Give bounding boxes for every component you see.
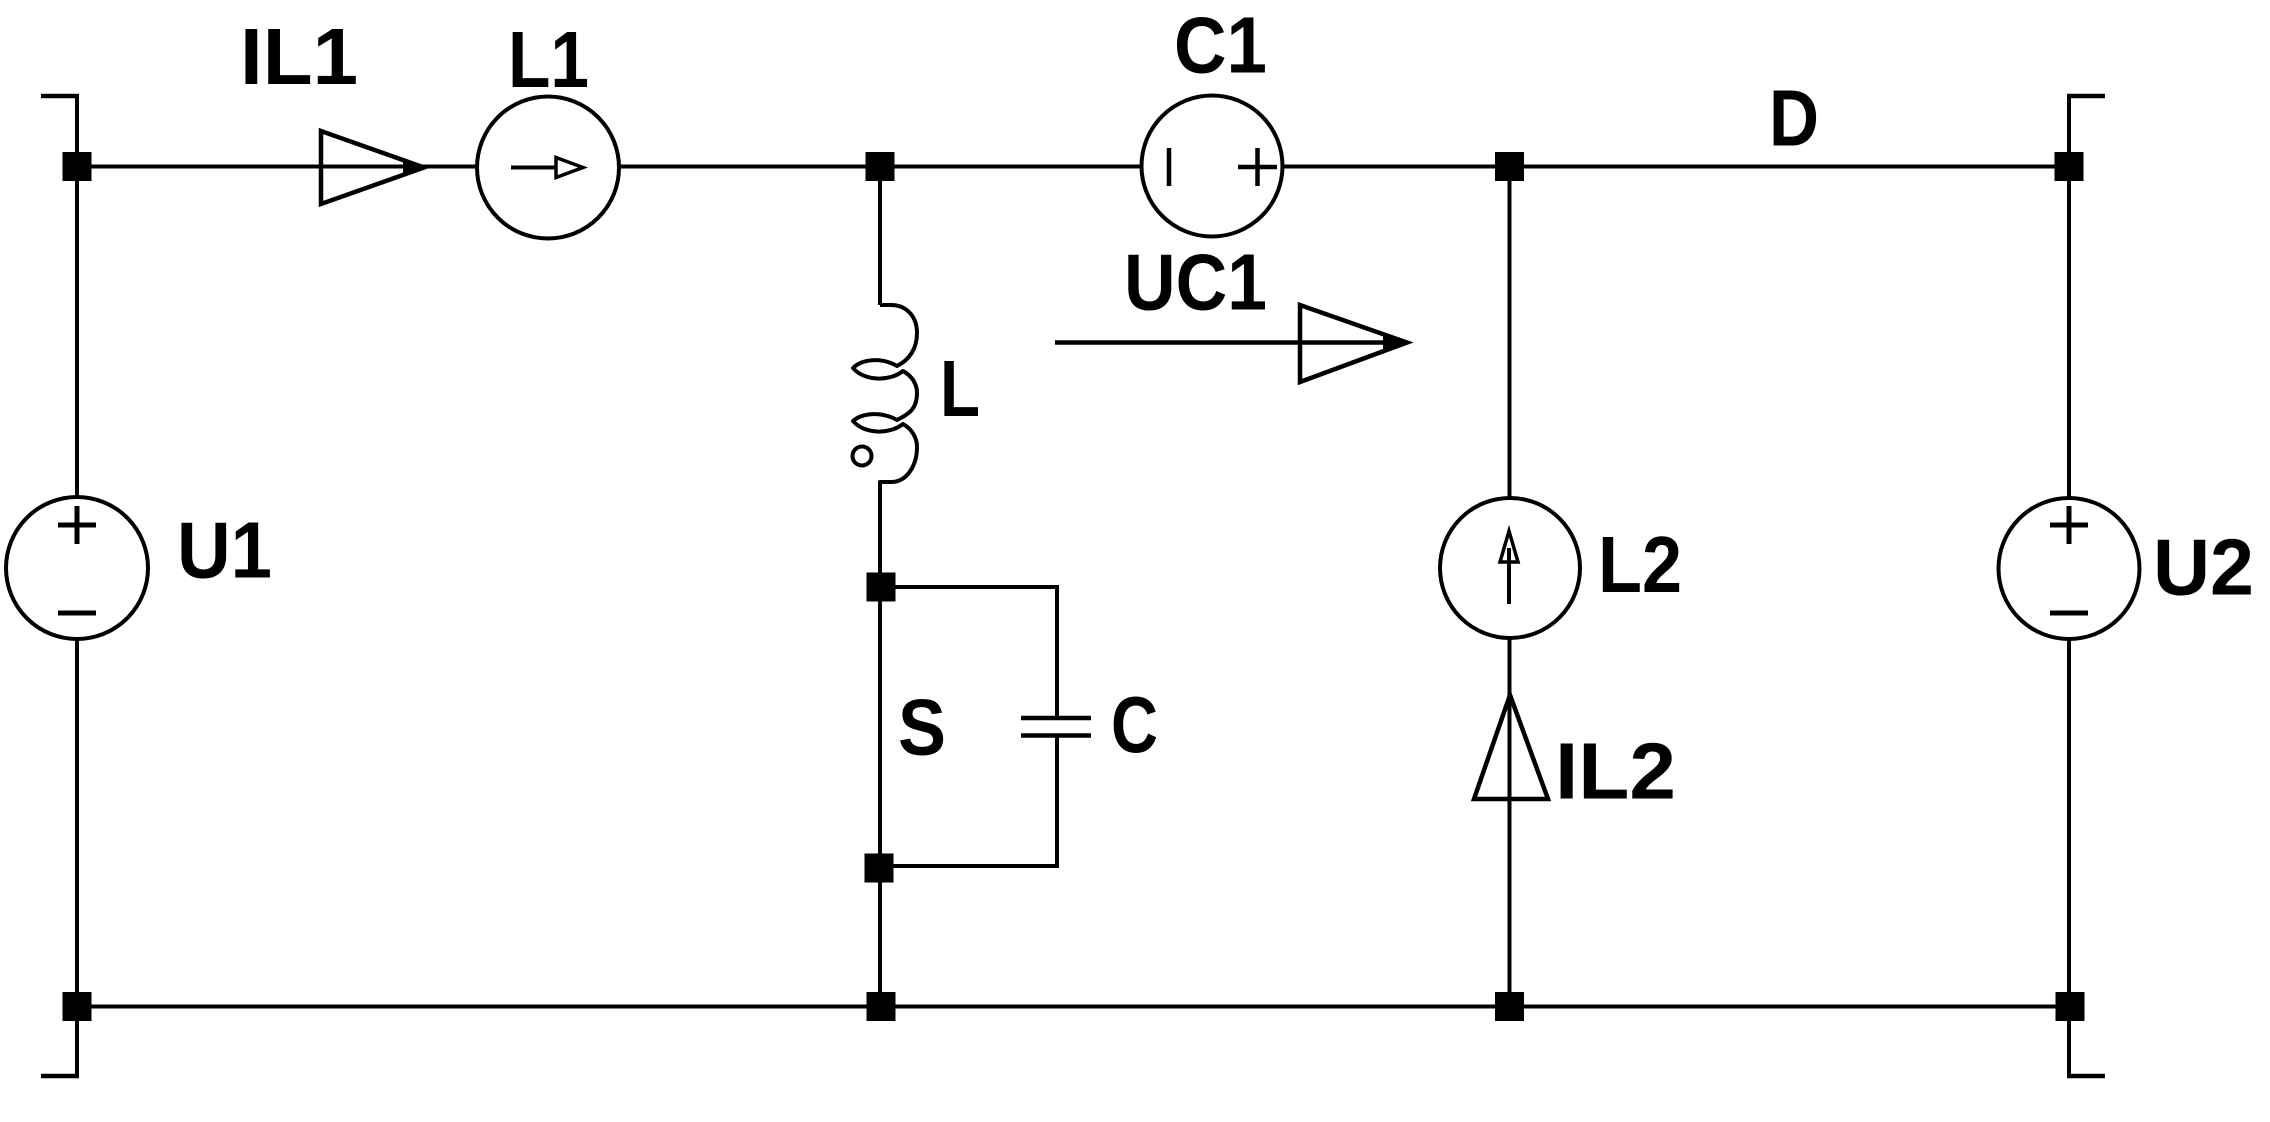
label C1 [1174, 1, 1267, 90]
node C top right-middle [1495, 152, 1524, 181]
svg-text:S: S [898, 683, 946, 772]
node D top-right [2055, 152, 2084, 181]
inductor L [853, 305, 918, 587]
svg-text:L: L [940, 344, 980, 433]
label IL1 [240, 12, 358, 101]
source L1 circle [477, 97, 619, 239]
node E switch-cap top [867, 573, 896, 602]
current arrow IL2 [1474, 695, 1548, 799]
label L2 [1598, 520, 1682, 609]
current arrow IL1 [321, 131, 425, 204]
terminal bracket top-left [41, 94, 79, 99]
source L2 circle [1440, 498, 1580, 638]
wire top rail right segment [1283, 165, 2069, 169]
voltage source U1 [6, 497, 148, 639]
voltage source U2 [1999, 498, 2140, 639]
node B top middle [866, 152, 895, 181]
label U1 [177, 506, 272, 595]
node H bottom middle [867, 992, 896, 1021]
node G bottom-left [63, 992, 92, 1021]
terminal bracket bottom-left [41, 1074, 79, 1079]
svg-text:C: C [1111, 680, 1158, 769]
svg-text:U1: U1 [177, 506, 272, 595]
wire left rail upper [75, 94, 79, 497]
label U2 [2153, 523, 2254, 612]
source C1 circle [1142, 96, 1283, 237]
label IL2 [1555, 727, 1676, 816]
node F switch-cap bottom [865, 854, 894, 883]
label C [1111, 680, 1158, 769]
wire node C down to L2 [1508, 167, 1512, 499]
wire L2 down to bottom rail [1508, 638, 1512, 1007]
label S [898, 683, 946, 772]
node A top-left [63, 152, 92, 181]
svg-text:L1: L1 [508, 15, 589, 104]
svg-text:U2: U2 [2153, 523, 2254, 612]
svg-text:L2: L2 [1598, 520, 1682, 609]
label L1 [508, 15, 589, 104]
wire top rail left segment [77, 165, 477, 169]
terminal bracket top-right [2067, 94, 2105, 99]
label D [1769, 74, 1819, 163]
switch S / capacitor C loop wires [881, 587, 1057, 866]
wire middle vertical lower (switch branch S and down to bottom rail) [878, 483, 882, 1007]
wire left rail lower [75, 639, 79, 1078]
svg-text:D: D [1769, 74, 1819, 163]
label L [940, 344, 980, 433]
terminal bracket bottom-right [2067, 1074, 2105, 1079]
svg-text:IL1: IL1 [240, 12, 358, 101]
svg-text:C1: C1 [1174, 1, 1267, 90]
wire top rail middle segment [619, 165, 1142, 169]
svg-text:IL2: IL2 [1555, 727, 1676, 816]
wire right rail lower [2067, 638, 2071, 1078]
voltage arrow UC1 [1055, 305, 1408, 382]
wire middle vertical upper (node B to inductor) [878, 167, 882, 306]
wire bottom rail [77, 1005, 2070, 1009]
svg-text:UC1: UC1 [1124, 238, 1267, 327]
node J bottom-right [2056, 992, 2085, 1021]
wire right rail upper [2067, 94, 2071, 498]
label UC1 [1124, 238, 1267, 327]
capacitor C plates [1021, 718, 1091, 736]
node I bottom right-middle [1495, 992, 1524, 1021]
